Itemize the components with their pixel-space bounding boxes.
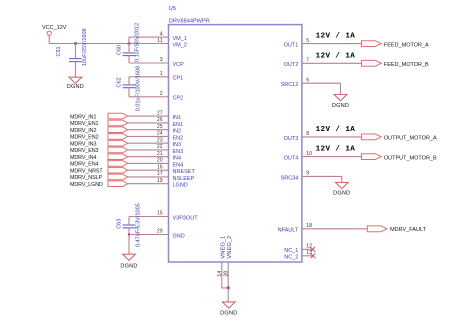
svg-text:NSLEEP: NSLEEP xyxy=(173,176,195,182)
port MDRV_NSLP xyxy=(70,174,128,181)
port FEED_MOTOR_A xyxy=(362,41,430,49)
svg-text:DGND: DGND xyxy=(220,310,237,316)
U5 pin 10 (OUT4) label xyxy=(284,151,313,162)
wire GND pin 29 xyxy=(129,234,169,236)
wire C62 bottom xyxy=(128,88,130,97)
U5 pin 18 (NFAULT) label xyxy=(278,223,313,234)
svg-text:12V / 1A: 12V / 1A xyxy=(316,52,356,60)
svg-text:0.1uF/50V/2012: 0.1uF/50V/2012 xyxy=(135,23,141,62)
capacitor C62 xyxy=(116,66,141,111)
svg-text:NFAULT: NFAULT xyxy=(278,228,299,234)
U5 pin 8 (OUT3) label xyxy=(284,131,310,142)
port MDRV_FAULT xyxy=(367,226,426,233)
wire MDRV_EN3 to pin xyxy=(128,149,169,151)
wire SRC12 down xyxy=(340,83,342,94)
svg-text:CP1: CP1 xyxy=(173,76,184,82)
U5 pin 6 (SRC12) label xyxy=(281,77,310,88)
wire C63 top xyxy=(128,217,130,226)
svg-text:26: 26 xyxy=(157,117,163,123)
wire MDRV_IN2 to pin xyxy=(128,129,169,131)
wire SRC34 down xyxy=(341,176,343,182)
port MDRV_IN4 xyxy=(70,154,128,161)
svg-text:VCC_12V: VCC_12V xyxy=(42,25,67,31)
svg-text:MDRV_EN1: MDRV_EN1 xyxy=(70,121,99,127)
svg-text:4: 4 xyxy=(160,31,163,37)
svg-text:MDRV_EN3: MDRV_EN3 xyxy=(70,148,99,154)
svg-text:VNEG_1: VNEG_1 xyxy=(221,236,227,259)
svg-text:NRESET: NRESET xyxy=(173,169,196,175)
wire VNEG_1 pin 14 stub xyxy=(222,262,228,288)
svg-text:16: 16 xyxy=(157,164,163,170)
svg-text:OUTPUT_MOTOR_B: OUTPUT_MOTOR_B xyxy=(384,155,437,161)
svg-text:EN1: EN1 xyxy=(173,122,184,128)
svg-text:25: 25 xyxy=(157,124,163,130)
U5 pin 23 (IN3) label xyxy=(157,137,181,148)
node junction at C60 xyxy=(128,42,131,45)
wire OUT to FEED_MOTOR_B xyxy=(302,62,362,64)
svg-text:LGND: LGND xyxy=(173,183,188,189)
svg-text:9: 9 xyxy=(306,171,309,177)
U5 pin 25 (IN2) label xyxy=(157,124,181,135)
wire OUT to OUTPUT_MOTOR_B xyxy=(302,156,362,158)
U5 pin 5 (OUT1) label xyxy=(284,38,310,49)
svg-text:1: 1 xyxy=(160,71,163,77)
U5 pin 7 (OUT2) label xyxy=(284,58,310,69)
svg-text:15: 15 xyxy=(157,211,163,217)
port MDRV_IN3 xyxy=(70,140,128,147)
svg-text:12V / 1A: 12V / 1A xyxy=(316,33,356,41)
svg-text:U5: U5 xyxy=(169,6,176,12)
wire NC_1 stub xyxy=(302,248,313,250)
wire CP2 pin 2 xyxy=(129,96,169,98)
U5 pin 20 (EN4) label xyxy=(157,158,183,169)
svg-text:7: 7 xyxy=(306,58,309,64)
U5 pin 14 (VNEG_1) label xyxy=(217,236,227,277)
svg-text:IN2: IN2 xyxy=(173,129,182,135)
wire NC_2 stub xyxy=(302,255,313,257)
svg-text:3: 3 xyxy=(160,57,163,63)
svg-text:IN1: IN1 xyxy=(173,115,182,121)
svg-text:C60: C60 xyxy=(117,45,123,55)
wire MDRV_IN4 to pin xyxy=(128,156,169,158)
svg-text:C63: C63 xyxy=(117,219,123,229)
svg-text:19: 19 xyxy=(157,178,163,184)
capacitor C61 xyxy=(56,28,88,66)
svg-text:0.01uF/100V/1608: 0.01uF/100V/1608 xyxy=(136,66,142,111)
port MDRV_IN1 xyxy=(70,113,128,120)
svg-text:C61: C61 xyxy=(56,46,62,56)
svg-text:MDRV_FAULT: MDRV_FAULT xyxy=(390,227,427,233)
U5 pin 28 (VNEG_2) label xyxy=(224,236,233,277)
svg-text:MDRV_EN2: MDRV_EN2 xyxy=(70,135,99,141)
svg-text:OUTPUT_MOTOR_A: OUTPUT_MOTOR_A xyxy=(384,136,437,142)
svg-text:5: 5 xyxy=(306,38,309,44)
wire MDRV_NSLP to pin xyxy=(128,176,169,178)
wire MDRV_EN4 to pin xyxy=(128,162,169,164)
wire OUT to FEED_MOTOR_A xyxy=(302,43,362,45)
wire VCC rail to VM_2 xyxy=(49,43,168,45)
svg-text:DGND: DGND xyxy=(332,103,349,109)
U5 pin 24 (EN2) label xyxy=(157,131,183,142)
U5 pin 15 (V3P3OUT) label xyxy=(157,211,198,222)
IC U5 DRV8844PWPR body xyxy=(169,6,302,262)
U5 pin 16 (NRESET) label xyxy=(157,164,196,175)
svg-text:EN2: EN2 xyxy=(173,135,184,141)
port OUTPUT_MOTOR_A xyxy=(362,134,437,142)
U5 pin 26 (EN1) label xyxy=(157,117,183,128)
svg-text:VNEG_2: VNEG_2 xyxy=(227,236,233,259)
wire MDRV_IN3 to pin xyxy=(128,142,169,144)
wire MDRV_NRST to pin xyxy=(128,169,169,171)
U5 pin 2 (CP2) label xyxy=(160,91,183,102)
U5 pin 17 (NSLEEP) label xyxy=(157,171,195,182)
ground DGND xyxy=(332,95,349,109)
U5 pin 3 (VCP) label xyxy=(160,57,184,68)
wire C60 vertical VM_1 riser xyxy=(128,37,130,53)
svg-text:CP2: CP2 xyxy=(173,96,184,102)
svg-text:MDRV_IN4: MDRV_IN4 xyxy=(70,155,96,161)
wire MDRV_LGND to pin xyxy=(128,183,169,185)
wire to VM_1 pin 4 xyxy=(129,36,169,38)
node junction at C61 xyxy=(74,42,77,45)
U5 pin 29 (GND) label xyxy=(157,229,185,240)
svg-text:OUT2: OUT2 xyxy=(284,62,299,68)
capacitor C63 xyxy=(117,203,142,247)
svg-text:2: 2 xyxy=(160,91,163,97)
svg-text:MDRV_IN1: MDRV_IN1 xyxy=(70,114,96,120)
svg-text:MDRV_EN4: MDRV_EN4 xyxy=(70,162,99,168)
svg-text:EN3: EN3 xyxy=(173,149,184,155)
port OUTPUT_MOTOR_B xyxy=(362,154,437,162)
svg-text:SRC12: SRC12 xyxy=(281,82,299,88)
wire VNEG down to ground xyxy=(227,288,229,302)
wire V3P3OUT pin 15 xyxy=(129,216,169,218)
port MDRV_EN4 xyxy=(70,161,128,168)
svg-text:DGND: DGND xyxy=(333,191,350,197)
node junction GND C63 xyxy=(128,233,130,235)
svg-text:VCP: VCP xyxy=(173,62,185,68)
svg-text:IN3: IN3 xyxy=(173,142,182,148)
wire SRC34 pin 9 xyxy=(302,175,342,177)
node junction VNEG xyxy=(227,286,230,289)
svg-text:MDRV_IN3: MDRV_IN3 xyxy=(70,142,96,148)
port MDRV_LGND xyxy=(70,181,128,188)
ground DGND xyxy=(67,77,84,90)
svg-text:MDRV_LGND: MDRV_LGND xyxy=(70,182,103,188)
ground DGND xyxy=(120,254,137,269)
wire OUT to OUTPUT_MOTOR_A xyxy=(302,136,362,138)
U5 pin 19 (LGND) label xyxy=(157,178,188,189)
wire NFAULT pin 18 xyxy=(302,228,367,230)
svg-text:10: 10 xyxy=(306,151,312,157)
svg-text:V3P3OUT: V3P3OUT xyxy=(173,215,199,221)
wire VCC_12V down xyxy=(48,35,50,43)
svg-text:27: 27 xyxy=(157,110,163,116)
wire C63 bottom to ground xyxy=(128,228,130,254)
U5 pin 12 (NC_1) label xyxy=(284,244,312,255)
no-connect X pin 12 xyxy=(310,247,315,252)
wire C61 bottom xyxy=(75,62,77,78)
U5 pin 4 (VM_1) label xyxy=(160,31,187,42)
wire MDRV_EN1 to pin xyxy=(128,122,169,124)
svg-text:29: 29 xyxy=(157,229,163,235)
svg-text:11: 11 xyxy=(157,38,162,44)
svg-text:21: 21 xyxy=(157,151,163,157)
port MDRV_EN1 xyxy=(70,120,128,127)
capacitor C60 xyxy=(117,23,141,62)
wire CP1 pin 1 xyxy=(129,76,169,78)
port MDRV_EN3 xyxy=(70,147,128,154)
ground DGND xyxy=(220,302,237,317)
U5 pin 21 (IN4) label xyxy=(157,151,181,162)
svg-text:NC_2: NC_2 xyxy=(284,255,298,261)
U5 pin 1 (CP1) label xyxy=(160,71,183,82)
wire C60 bottom xyxy=(128,56,130,63)
wire to VCP pin 3 xyxy=(129,62,169,64)
svg-text:OUT3: OUT3 xyxy=(284,136,299,142)
ground DGND xyxy=(333,182,350,196)
svg-text:FEED_MOTOR_B: FEED_MOTOR_B xyxy=(384,62,429,68)
port MDRV_NRST xyxy=(70,167,128,174)
svg-text:FEED_MOTOR_A: FEED_MOTOR_A xyxy=(384,42,429,48)
svg-text:18: 18 xyxy=(306,223,312,229)
svg-text:12V / 1A: 12V / 1A xyxy=(316,146,356,154)
power VCC_12V xyxy=(42,25,67,35)
svg-text:MDRV_NSLP: MDRV_NSLP xyxy=(70,175,102,181)
svg-text:24: 24 xyxy=(157,131,163,137)
svg-text:0.47uF/6.3V/1005: 0.47uF/6.3V/1005 xyxy=(135,203,141,247)
svg-text:VM_2: VM_2 xyxy=(173,43,187,49)
svg-text:VM_1: VM_1 xyxy=(173,36,187,42)
wire MDRV_IN1 to pin xyxy=(128,115,169,117)
U5 pin 27 (IN1) label xyxy=(157,110,181,121)
svg-text:GND: GND xyxy=(173,233,185,239)
wire C62 top xyxy=(128,77,130,85)
svg-text:23: 23 xyxy=(157,137,163,143)
U5 pin 22 (EN3) label xyxy=(157,144,183,155)
svg-text:DGND: DGND xyxy=(120,264,137,270)
svg-text:NC_1: NC_1 xyxy=(284,248,298,254)
U5 pin 9 (SRC34) label xyxy=(281,171,310,182)
port MDRV_IN2 xyxy=(70,127,128,134)
wire C61 top xyxy=(75,44,77,59)
svg-text:MDRV_NRST: MDRV_NRST xyxy=(70,169,103,175)
svg-text:DGND: DGND xyxy=(67,84,84,90)
U5 pin 13 (NC_2) label xyxy=(284,250,312,261)
svg-text:IN4: IN4 xyxy=(173,156,182,162)
svg-text:20: 20 xyxy=(157,158,163,164)
port FEED_MOTOR_B xyxy=(362,60,430,68)
wire VNEG_2 pin 28 stub xyxy=(227,262,229,288)
svg-text:OUT1: OUT1 xyxy=(284,43,299,49)
svg-text:6: 6 xyxy=(306,77,309,83)
U5 pin 11 (VM_2) label xyxy=(157,38,187,49)
wire SRC12 pin 6 xyxy=(302,82,341,84)
svg-text:OUT4: OUT4 xyxy=(284,156,299,162)
no-connect X pin 13 xyxy=(311,253,316,258)
svg-text:DRV8844PWPR: DRV8844PWPR xyxy=(169,19,210,25)
svg-text:17: 17 xyxy=(157,171,163,177)
svg-text:C62: C62 xyxy=(116,77,122,87)
svg-text:8: 8 xyxy=(306,131,309,137)
port MDRV_EN2 xyxy=(70,134,128,141)
svg-text:SRC34: SRC34 xyxy=(281,175,299,181)
svg-text:MDRV_IN2: MDRV_IN2 xyxy=(70,128,96,134)
svg-text:10uF/25V/1608: 10uF/25V/1608 xyxy=(82,28,88,66)
svg-text:22: 22 xyxy=(157,144,163,150)
svg-text:EN4: EN4 xyxy=(173,162,184,168)
svg-text:12V / 1A: 12V / 1A xyxy=(316,126,356,134)
wire MDRV_EN2 to pin xyxy=(128,135,169,137)
